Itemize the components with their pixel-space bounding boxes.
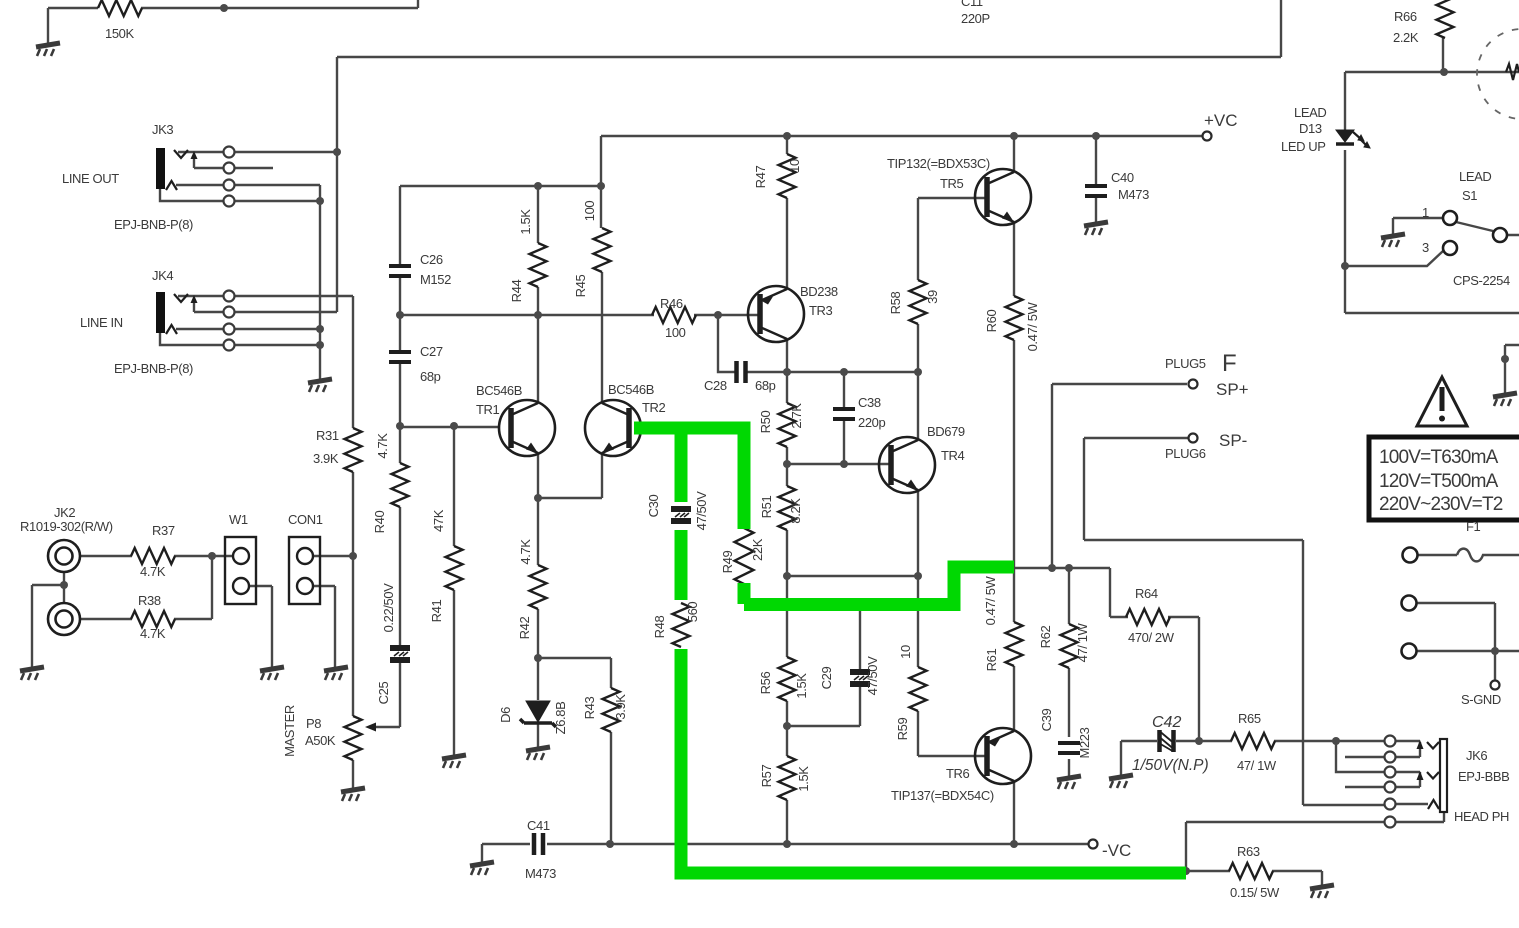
svg-text:SP+: SP+ <box>1216 380 1249 399</box>
svg-text:JK4: JK4 <box>152 268 173 283</box>
svg-text:1: 1 <box>1422 205 1429 220</box>
svg-text:R50: R50 <box>758 411 773 434</box>
svg-text:22K: 22K <box>750 538 765 561</box>
svg-text:120V=T500mA: 120V=T500mA <box>1379 471 1499 492</box>
svg-text:R44: R44 <box>509 280 524 303</box>
svg-text:220V~230V=T2: 220V~230V=T2 <box>1379 494 1503 515</box>
svg-text:PLUG6: PLUG6 <box>1165 446 1206 461</box>
svg-text:R62: R62 <box>1038 626 1053 649</box>
svg-text:LED UP: LED UP <box>1281 139 1326 154</box>
svg-text:R43: R43 <box>582 697 597 720</box>
svg-text:R59: R59 <box>895 718 910 741</box>
svg-text:R1019-302(R/W): R1019-302(R/W) <box>20 519 113 534</box>
svg-text:PLUG5: PLUG5 <box>1165 356 1206 371</box>
svg-text:BC546B: BC546B <box>476 383 522 398</box>
svg-text:TR2: TR2 <box>642 400 666 415</box>
svg-text:3.9K: 3.9K <box>313 451 339 466</box>
svg-text:C25: C25 <box>376 682 391 705</box>
svg-text:100: 100 <box>582 201 597 222</box>
svg-text:D13: D13 <box>1299 121 1322 136</box>
svg-text:R41: R41 <box>429 600 444 623</box>
svg-text:47/50V: 47/50V <box>865 656 880 696</box>
svg-text:JK2: JK2 <box>54 505 75 520</box>
svg-text:EPJ-BBB: EPJ-BBB <box>1458 769 1509 784</box>
svg-text:4.7K: 4.7K <box>140 564 166 579</box>
svg-text:C26: C26 <box>420 252 443 267</box>
svg-text:220p: 220p <box>858 415 885 430</box>
svg-text:220P: 220P <box>961 11 990 26</box>
svg-text:TR3: TR3 <box>809 303 833 318</box>
svg-text:4.7K: 4.7K <box>140 626 166 641</box>
svg-text:TR1: TR1 <box>476 402 500 417</box>
svg-text:R65: R65 <box>1238 711 1261 726</box>
svg-text:LEAD: LEAD <box>1459 169 1491 184</box>
svg-text:39: 39 <box>925 290 940 304</box>
svg-text:1.5K: 1.5K <box>794 673 809 699</box>
svg-text:JK3: JK3 <box>152 122 173 137</box>
svg-text:M223: M223 <box>1077 727 1092 758</box>
svg-text:68p: 68p <box>420 369 441 384</box>
svg-text:4.7K: 4.7K <box>375 433 390 459</box>
svg-text:TR5: TR5 <box>940 176 964 191</box>
svg-text:C39: C39 <box>1039 709 1054 732</box>
svg-text:TR6: TR6 <box>946 766 970 781</box>
svg-text:BD238: BD238 <box>800 284 838 299</box>
svg-text:MASTER: MASTER <box>282 705 297 757</box>
svg-text:S-GND: S-GND <box>1461 692 1501 707</box>
svg-text:3: 3 <box>1422 240 1429 255</box>
svg-text:F1: F1 <box>1466 519 1481 534</box>
svg-text:R31: R31 <box>316 428 339 443</box>
svg-text:47/50V: 47/50V <box>694 491 709 531</box>
svg-text:C41: C41 <box>527 818 550 833</box>
svg-text:0.15/ 5W: 0.15/ 5W <box>1230 885 1280 900</box>
svg-text:TR4: TR4 <box>941 448 965 463</box>
svg-text:M152: M152 <box>420 272 451 287</box>
svg-text:CON1: CON1 <box>288 512 323 527</box>
svg-text:R46: R46 <box>660 296 683 311</box>
svg-text:470/ 2W: 470/ 2W <box>1128 630 1175 645</box>
svg-text:P8: P8 <box>306 716 321 731</box>
svg-text:EPJ-BNB-P(8): EPJ-BNB-P(8) <box>114 361 193 376</box>
svg-text:C40: C40 <box>1111 170 1134 185</box>
svg-text:Z6.8B: Z6.8B <box>553 702 568 735</box>
svg-text:0.22/50V: 0.22/50V <box>381 583 396 633</box>
svg-text:R42: R42 <box>517 617 532 640</box>
svg-text:R56: R56 <box>758 672 773 695</box>
svg-text:LINE IN: LINE IN <box>80 315 123 330</box>
svg-text:EPJ-BNB-P(8): EPJ-BNB-P(8) <box>114 217 193 232</box>
svg-text:C11: C11 <box>961 0 983 9</box>
svg-text:R63: R63 <box>1237 844 1260 859</box>
svg-text:C27: C27 <box>420 344 443 359</box>
svg-text:R64: R64 <box>1135 586 1158 601</box>
svg-text:47K: 47K <box>431 509 446 532</box>
svg-text:R57: R57 <box>759 765 774 788</box>
svg-text:R47: R47 <box>753 166 768 189</box>
svg-text:3.9K: 3.9K <box>613 694 628 720</box>
svg-text:100V=T630mA: 100V=T630mA <box>1379 447 1499 468</box>
svg-text:R51: R51 <box>759 496 774 519</box>
svg-text:SP-: SP- <box>1219 431 1247 450</box>
svg-text:68p: 68p <box>755 378 776 393</box>
svg-text:R37: R37 <box>152 523 175 538</box>
svg-text:1.5K: 1.5K <box>518 209 533 235</box>
svg-text:R49: R49 <box>720 551 735 574</box>
svg-text:R66: R66 <box>1394 9 1417 24</box>
svg-text:R48: R48 <box>652 616 667 639</box>
svg-text:R45: R45 <box>573 275 588 298</box>
svg-text:LINE OUT: LINE OUT <box>62 171 119 186</box>
svg-text:TIP137(=BDX54C): TIP137(=BDX54C) <box>891 788 994 803</box>
svg-text:0.47/ 5W: 0.47/ 5W <box>983 575 998 625</box>
svg-text:1/50V(N.P): 1/50V(N.P) <box>1132 757 1209 774</box>
svg-text:BD679: BD679 <box>927 424 965 439</box>
svg-text:10: 10 <box>787 159 802 173</box>
svg-text:0.47/ 5W: 0.47/ 5W <box>1025 301 1040 351</box>
svg-text:C38: C38 <box>858 395 881 410</box>
svg-text:C29: C29 <box>819 667 834 690</box>
svg-text:2.2K: 2.2K <box>1393 30 1419 45</box>
svg-text:CPS-2254: CPS-2254 <box>1453 273 1510 288</box>
svg-text:A50K: A50K <box>305 733 336 748</box>
svg-text:C30: C30 <box>646 495 661 518</box>
svg-text:47/ 1W: 47/ 1W <box>1075 622 1090 662</box>
svg-text:8.2K: 8.2K <box>788 498 803 524</box>
svg-text:1.5K: 1.5K <box>796 766 811 792</box>
svg-text:+VC: +VC <box>1204 111 1238 130</box>
svg-text:10: 10 <box>898 645 913 659</box>
svg-text:BC546B: BC546B <box>608 382 654 397</box>
svg-text:M473: M473 <box>525 866 556 881</box>
svg-text:C28: C28 <box>704 378 727 393</box>
svg-text:M473: M473 <box>1118 187 1149 202</box>
svg-text:R40: R40 <box>372 511 387 534</box>
svg-text:D6: D6 <box>498 707 513 723</box>
svg-text:100: 100 <box>665 325 686 340</box>
svg-text:S1: S1 <box>1462 188 1477 203</box>
svg-text:R60: R60 <box>984 310 999 333</box>
svg-text:-VC: -VC <box>1102 841 1131 860</box>
svg-text:R58: R58 <box>888 292 903 315</box>
svg-text:F: F <box>1222 350 1237 377</box>
svg-text:LEAD: LEAD <box>1294 105 1326 120</box>
svg-text:150K: 150K <box>105 26 134 41</box>
svg-text:47/ 1W: 47/ 1W <box>1237 758 1277 773</box>
svg-text:W1: W1 <box>229 512 248 527</box>
svg-text:C42: C42 <box>1152 714 1181 731</box>
svg-text:R38: R38 <box>138 593 161 608</box>
svg-text:JK6: JK6 <box>1466 748 1487 763</box>
svg-text:R61: R61 <box>984 649 999 672</box>
svg-text:TIP132(=BDX53C): TIP132(=BDX53C) <box>887 156 990 171</box>
svg-text:HEAD PH: HEAD PH <box>1454 809 1509 824</box>
svg-text:2.7K: 2.7K <box>789 403 804 429</box>
svg-text:4.7K: 4.7K <box>518 539 533 565</box>
svg-text:560: 560 <box>685 602 700 623</box>
